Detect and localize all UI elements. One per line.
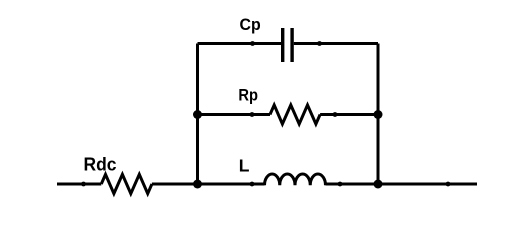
wire (198, 113, 271, 116)
svg-text:Rp: Rp (238, 85, 258, 104)
wire (320, 113, 378, 116)
svg-text:Rdc: Rdc (84, 154, 117, 174)
wire (198, 42, 282, 45)
wire endpoint mark (250, 112, 255, 117)
capacitor Cp (283, 28, 292, 62)
svg-text:Cp: Cp (240, 15, 261, 34)
node left-middle junction (193, 110, 202, 119)
resistor Rdc (101, 174, 152, 193)
resistor Rp (270, 105, 320, 124)
wire endpoint mark (317, 41, 322, 46)
node right-middle junction (374, 110, 383, 119)
svg-text:L: L (239, 156, 250, 176)
wire endpoint mark (250, 182, 255, 187)
wire (326, 183, 478, 186)
wire (196, 44, 199, 185)
wire (294, 42, 378, 45)
wire endpoint mark (446, 182, 451, 187)
node left-bottom junction (193, 180, 202, 189)
wire endpoint mark (250, 41, 255, 46)
wire endpoint mark (338, 182, 343, 187)
wire (377, 44, 380, 185)
wire (152, 183, 265, 186)
node right-bottom junction (374, 180, 383, 189)
wire endpoint mark (81, 182, 86, 187)
wire endpoint mark (333, 112, 338, 117)
inductor L (265, 174, 326, 185)
wire (57, 183, 101, 186)
